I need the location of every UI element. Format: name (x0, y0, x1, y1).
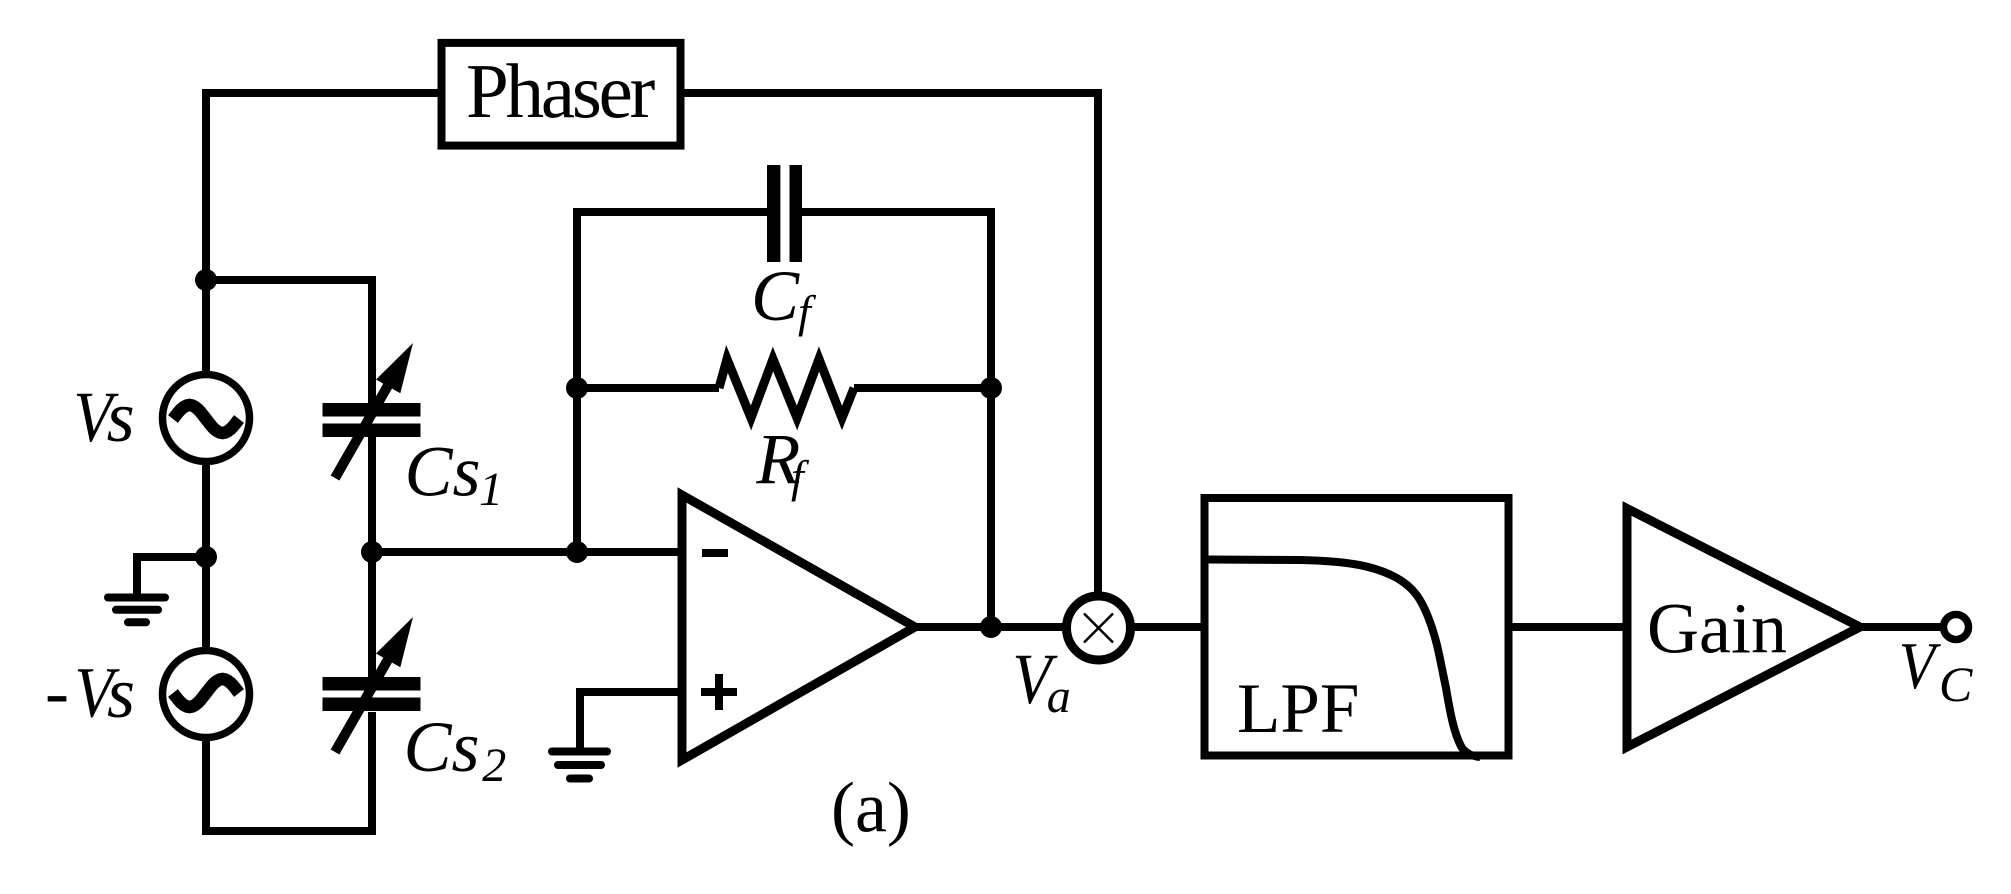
AC source Vs (163, 375, 250, 462)
wire -Vs bottom to bottom rail up to Cs2 (206, 712, 372, 831)
svg-text:Gain: Gain (1647, 589, 1787, 669)
wire node A to capacitor branch top (202, 280, 372, 404)
Phaser block (442, 43, 681, 146)
svg-text:-: - (45, 652, 69, 732)
wire non-inverting input to ground (580, 692, 682, 750)
svg-text:Cs: Cs (404, 707, 480, 787)
AC source -Vs (inverted) (163, 651, 250, 738)
wire op-amp output to multiplier (915, 623, 1067, 631)
wire Cs1 bottom to Cs2 top (368, 435, 376, 679)
wire LPF to Gain (1512, 623, 1627, 631)
svg-text:a: a (1047, 670, 1071, 723)
label -Vs (45, 652, 135, 733)
wire Vs bottom to -Vs top (202, 460, 210, 652)
svg-text:(a): (a) (831, 768, 911, 848)
label Cs1 (405, 432, 504, 517)
junction output node Va (980, 616, 1002, 638)
label Vs (73, 377, 134, 457)
wire feedback right vertical (801, 212, 991, 627)
variable capacitor Cs1 (323, 343, 421, 478)
Gain amplifier (1627, 509, 1860, 748)
wire ground stub near Vs (137, 557, 206, 595)
label Cs2 (404, 707, 507, 792)
label Rf (755, 419, 810, 502)
label Va (1012, 639, 1070, 723)
LPF block (1205, 498, 1509, 757)
label Vc (1899, 628, 1973, 712)
svg-text:Phaser: Phaser (466, 48, 655, 134)
wire top-left from source branch to Phaser input (206, 93, 445, 375)
wire multiplier to LPF (1130, 623, 1201, 631)
svg-text:Cs: Cs (405, 432, 481, 512)
junction mid node between Cs1 and Cs2 (361, 541, 383, 563)
wire mid node to op-amp inverting input (368, 548, 682, 556)
variable capacitor Cs2 (323, 617, 421, 752)
wire Gain to output terminal (1860, 623, 1945, 631)
svg-text:s: s (107, 653, 135, 733)
node A junction (top left) (195, 269, 217, 291)
svg-text:C: C (1939, 656, 1973, 712)
svg-text:s: s (107, 377, 135, 457)
svg-text:V: V (1899, 628, 1941, 703)
junction op-amp input node (566, 541, 588, 563)
junction Rf left node (566, 377, 588, 399)
resistor Rf (719, 359, 854, 418)
svg-text:2: 2 (482, 739, 506, 792)
ground near Vs (108, 598, 165, 623)
junction ground node between Vs and -Vs (195, 546, 217, 568)
capacitor Cf (767, 165, 802, 262)
label Cf (751, 256, 817, 337)
op-amp U1 (682, 495, 915, 760)
wire feedback left vertical (577, 212, 768, 552)
wire Phaser output to top-right corner down to multiplier (681, 93, 1098, 596)
svg-text:1: 1 (479, 463, 503, 516)
ground at op-amp non-inverting input (552, 752, 607, 779)
wire Rf left (577, 384, 719, 392)
output terminal Vc (1944, 615, 1969, 640)
junction Rf right node (980, 377, 1002, 399)
svg-text:LPF: LPF (1237, 670, 1359, 748)
svg-text:C: C (751, 256, 800, 336)
multiplier (mixer) (1067, 596, 1131, 660)
wire Rf right (854, 384, 991, 392)
